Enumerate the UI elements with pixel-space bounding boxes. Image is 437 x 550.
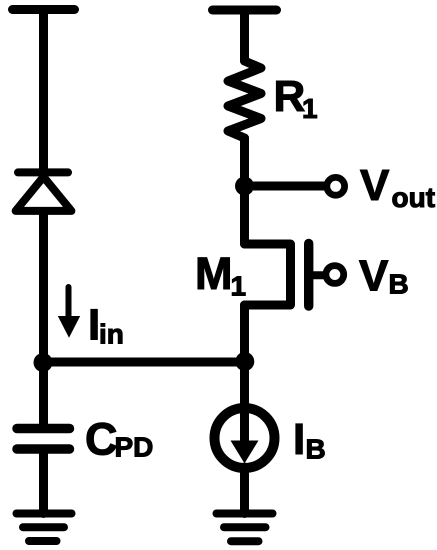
svg-text:R: R — [274, 72, 306, 121]
wire — [39, 10, 48, 173]
svg-text:out: out — [392, 182, 436, 213]
svg-text:B: B — [306, 434, 326, 465]
photodiode D_PD cathode bar — [18, 168, 68, 176]
wire — [240, 138, 249, 186]
svg-text:I: I — [293, 415, 305, 464]
svg-text:V: V — [359, 252, 389, 301]
wire — [240, 305, 249, 362]
power rail left — [13, 5, 75, 14]
svg-text:V: V — [360, 161, 390, 210]
ground right — [217, 514, 273, 542]
arrow I_in — [66, 287, 72, 320]
svg-text:in: in — [99, 319, 124, 350]
ground left — [17, 514, 72, 542]
wire — [240, 467, 249, 514]
transistor M1 body — [245, 244, 291, 305]
photodiode D_PD triangle — [16, 177, 72, 211]
wire — [39, 362, 48, 429]
terminal VB — [326, 266, 344, 284]
wire — [245, 182, 327, 191]
node A junction dot — [34, 353, 53, 372]
wire — [39, 213, 48, 362]
wire — [240, 362, 249, 404]
node Vout junction dot — [235, 177, 254, 196]
svg-text:1: 1 — [231, 271, 247, 302]
wire — [39, 449, 48, 514]
transistor M1 gate bar — [304, 244, 313, 307]
svg-text:1: 1 — [302, 93, 318, 124]
svg-text:C: C — [85, 414, 118, 465]
capacitor C_PD plate 1 — [17, 424, 70, 434]
wire — [43, 358, 245, 367]
node B junction dot — [235, 352, 254, 371]
svg-text:M: M — [195, 248, 233, 299]
resistor R1 — [228, 61, 261, 138]
svg-text:PD: PD — [115, 432, 154, 463]
wire gate stub — [313, 271, 327, 279]
current source IB circle — [215, 408, 275, 468]
wire — [240, 186, 249, 244]
svg-text:B: B — [389, 269, 409, 300]
wire — [240, 10, 249, 61]
current source IB arrow — [240, 414, 249, 443]
capacitor C_PD plate 2 — [17, 444, 70, 454]
power rail right — [213, 6, 277, 15]
terminal Vout — [327, 177, 345, 195]
